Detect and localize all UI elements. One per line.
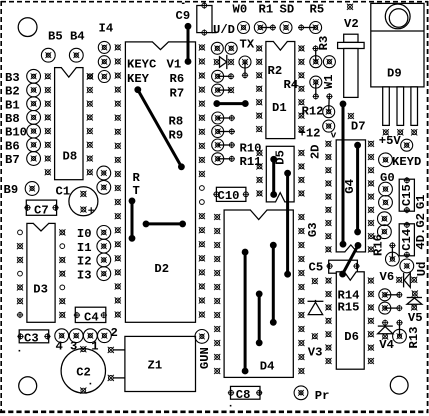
- pad B3: [27, 69, 41, 83]
- pad I0: [97, 226, 111, 240]
- pad B1: [27, 97, 41, 111]
- svg-text:B10: B10: [5, 126, 27, 140]
- svg-text:T: T: [133, 184, 140, 198]
- pads 4 3 1 2 row: [55, 329, 112, 343]
- D6 left pin pads: [325, 278, 331, 365]
- resistor R1 (pads+lead): [254, 22, 276, 34]
- IC D2: [125, 42, 195, 322]
- wire jumper long (x343): [340, 101, 346, 247]
- D9 leg pads: [383, 129, 418, 135]
- svg-text:R4: R4: [284, 78, 299, 92]
- wire jumper in D5: [271, 157, 277, 198]
- pads near G3/V3: [312, 278, 318, 339]
- wire jumper in D2 (diagonal): [135, 87, 184, 170]
- wire jumper in D2 (horizontal): [143, 221, 185, 227]
- svg-text:R5: R5: [310, 3, 325, 17]
- svg-text:KEY: KEY: [127, 72, 150, 86]
- capacitor C4: [74, 307, 107, 322]
- resistor R3 (pads+lead): [310, 45, 322, 67]
- svg-text:B7: B7: [5, 153, 20, 167]
- resistor W1 (pads+lead): [310, 76, 322, 100]
- resistor R11 (pads+lead): [212, 153, 235, 165]
- svg-text:B3: B3: [5, 71, 20, 85]
- svg-text:B5 B4: B5 B4: [48, 29, 85, 43]
- svg-text:D4: D4: [260, 360, 275, 374]
- D1 right pin pads: [298, 45, 304, 132]
- svg-text:KEYC: KEYC: [127, 57, 156, 71]
- pad right of R3: [323, 56, 335, 68]
- module Z1: [125, 336, 196, 391]
- svg-text:GUN: GUN: [198, 347, 212, 369]
- svg-text:C2: C2: [76, 365, 91, 379]
- svg-text:C15: C15: [400, 184, 414, 206]
- svg-text:C4: C4: [84, 311, 99, 325]
- svg-text:B6: B6: [5, 139, 20, 153]
- svg-text:TX: TX: [240, 37, 255, 51]
- capacitor C15: [399, 177, 414, 213]
- D4 right pin pads: [298, 214, 304, 374]
- D5 right pin pads: [298, 150, 304, 197]
- svg-text:D8: D8: [63, 149, 78, 163]
- pad B8: [27, 111, 41, 125]
- diode V4: [378, 326, 393, 334]
- svg-text:B1: B1: [5, 98, 20, 112]
- svg-text:B9: B9: [4, 183, 19, 197]
- svg-text:C9: C9: [176, 9, 191, 23]
- capacitor C1: [69, 187, 98, 216]
- svg-text:R12: R12: [302, 105, 324, 119]
- svg-text:Z1: Z1: [148, 358, 163, 372]
- pad +12: [323, 120, 335, 132]
- svg-text:D1: D1: [272, 101, 287, 115]
- diode V5: [407, 298, 422, 305]
- svg-text:R10: R10: [240, 141, 262, 155]
- pad near top edge right: [347, 4, 353, 10]
- IC G4: [336, 140, 365, 252]
- svg-text:I0: I0: [77, 227, 92, 241]
- horizontal resistor (pads+lead): [212, 126, 235, 138]
- capacitor C14: [399, 222, 414, 258]
- D5 left pin pads: [256, 150, 262, 197]
- svg-text:4D.G2: 4D.G2: [414, 213, 428, 250]
- wire jumper (left of D1): [214, 101, 248, 107]
- svg-text:U/D: U/D: [213, 23, 235, 37]
- trimmer V2: [338, 34, 365, 97]
- resistor R13 (pads+lead): [393, 320, 407, 344]
- diode V3: [308, 300, 324, 315]
- svg-text:V5: V5: [408, 311, 423, 325]
- svg-text:G1: G1: [414, 194, 428, 209]
- svg-text:V2: V2: [344, 17, 359, 31]
- resistor R5 (pads+lead): [298, 22, 322, 34]
- G4 right pin pads: [368, 141, 374, 253]
- Z1 stub bottom: [108, 375, 125, 381]
- svg-text:Pr: Pr: [315, 389, 330, 403]
- svg-text:C3: C3: [24, 332, 39, 346]
- svg-text:R8: R8: [169, 114, 184, 128]
- pad B6: [27, 138, 41, 152]
- horizontal resistor (pads+lead): [212, 112, 235, 124]
- D3 right pin pads: [59, 229, 65, 318]
- D1 left pin pads: [256, 45, 262, 132]
- D8 left pin pads: [45, 73, 51, 175]
- horizontal resistor row3: [212, 70, 235, 82]
- dot below C3: [19, 350, 21, 352]
- svg-text:C10: C10: [218, 189, 240, 203]
- svg-text:V3: V3: [308, 345, 323, 359]
- pads R16: [378, 212, 392, 239]
- D2 right pin pads: [199, 44, 205, 317]
- svg-text:I2: I2: [77, 255, 92, 269]
- pad I2: [97, 253, 111, 267]
- pad left of I4 bottom row: [87, 73, 93, 79]
- diode V6: [396, 273, 417, 288]
- svg-text:2: 2: [111, 326, 118, 340]
- svg-text:R15: R15: [338, 301, 360, 315]
- pad +5V: [401, 139, 413, 151]
- svg-text:R9: R9: [169, 128, 184, 142]
- capacitor C5: [326, 260, 359, 273]
- horizontal resistor row295: [379, 289, 403, 301]
- svg-text:R2: R2: [268, 64, 283, 78]
- svg-text:D3: D3: [33, 283, 48, 297]
- svg-text:SD: SD: [280, 3, 295, 17]
- Z1 stub top: [108, 347, 125, 353]
- IC D8: [55, 68, 83, 180]
- diode V (top-left): [214, 55, 234, 69]
- capacitor C7: [24, 200, 58, 215]
- wire jumper D5 to D4: [285, 170, 291, 277]
- IC D1: [266, 42, 295, 139]
- IC D5: [266, 146, 294, 202]
- wire jumper diagonal to C5: [340, 243, 361, 277]
- svg-text:R6: R6: [170, 72, 185, 86]
- mounting hole top-left: [18, 18, 37, 37]
- pads row TX: [211, 42, 237, 54]
- svg-text:I1: I1: [77, 241, 92, 255]
- pad I3: [97, 267, 111, 281]
- pad B10: [27, 124, 41, 138]
- svg-text:C8: C8: [236, 388, 251, 402]
- svg-text:C5: C5: [309, 260, 324, 274]
- pad GUN: [195, 330, 209, 344]
- horizontal resistor row308: [379, 302, 403, 314]
- pad B2: [27, 83, 41, 97]
- svg-text:W1: W1: [322, 74, 336, 89]
- IC D4: [224, 210, 293, 377]
- svg-text:D7: D7: [351, 119, 366, 133]
- svg-text:C1: C1: [56, 184, 71, 198]
- svg-text:D9: D9: [387, 67, 402, 81]
- mounting hole bottom-right: [390, 376, 408, 394]
- svg-text:D2: D2: [154, 262, 169, 276]
- IC D6: [336, 272, 364, 369]
- capacitor C3: [17, 330, 50, 343]
- capacitor C9: [197, 2, 217, 36]
- svg-text:D6: D6: [344, 330, 359, 344]
- svg-text:R3: R3: [317, 36, 331, 51]
- svg-text:+5V: +5V: [379, 134, 402, 148]
- svg-text:R11: R11: [240, 155, 262, 169]
- pad below V5: [411, 304, 417, 310]
- wire jumper in D4 (x245): [242, 249, 248, 374]
- resistor R10 (pads+lead): [212, 139, 235, 151]
- wire jumper below C9: [185, 24, 191, 65]
- svg-text:W0: W0: [233, 3, 248, 17]
- pad B7: [27, 152, 41, 166]
- svg-text:I4: I4: [99, 21, 114, 35]
- pad I1: [97, 239, 111, 253]
- resistor below W1 (pads+lead): [323, 93, 335, 117]
- svg-text:2D: 2D: [309, 144, 323, 159]
- capacitor C8: [228, 386, 263, 399]
- wire jumper in D4 (x273): [271, 242, 277, 325]
- pads G0: [379, 182, 393, 209]
- D8 right pin pads: [87, 73, 93, 175]
- capacitor C10: [213, 187, 249, 201]
- pad below V4: [382, 333, 388, 339]
- svg-text:R13: R13: [407, 327, 421, 349]
- svg-text:4: 4: [56, 340, 63, 354]
- svg-text:KEYD: KEYD: [392, 155, 421, 169]
- svg-text:C14: C14: [400, 229, 414, 251]
- D4 left pin pads: [214, 214, 220, 374]
- svg-text:I3: I3: [77, 268, 92, 282]
- pad KEYD: [379, 153, 393, 167]
- mounting hole bottom-left: [19, 377, 37, 395]
- pads right of C1: [97, 166, 111, 194]
- pad below C14: [400, 259, 414, 273]
- svg-text:C7: C7: [34, 203, 49, 217]
- svg-text:R1: R1: [259, 3, 274, 17]
- pad D7: [348, 113, 354, 119]
- IC D3: [27, 223, 55, 322]
- svg-text:R: R: [133, 171, 141, 185]
- D6 right pin pads: [368, 278, 374, 365]
- svg-text:B8: B8: [5, 112, 20, 126]
- pad W0: [238, 22, 250, 34]
- wire jumper in G4: [355, 142, 361, 234]
- svg-text:+12: +12: [299, 126, 321, 140]
- D2 left pin pads: [115, 44, 121, 317]
- pad above V5: [412, 291, 418, 297]
- voltage regulator D9: [371, 3, 424, 125]
- dot in C2: [90, 383, 92, 385]
- svg-text:V4: V4: [379, 338, 394, 352]
- G4 left pin pads: [325, 141, 331, 253]
- pad SD: [280, 22, 292, 34]
- svg-text:v: v: [331, 129, 337, 140]
- vertical resistor right of R16: [386, 242, 400, 266]
- svg-text:G3: G3: [306, 222, 320, 237]
- svg-text:V6: V6: [380, 270, 395, 284]
- D3 left pin pads: [17, 230, 23, 318]
- svg-text:R7: R7: [170, 86, 185, 100]
- horizontal resistor row4: [212, 84, 234, 96]
- svg-text:V1: V1: [167, 57, 182, 71]
- svg-text:B2: B2: [5, 85, 20, 99]
- polarity dot above C9: [182, 3, 185, 4]
- svg-text:Ud: Ud: [415, 262, 429, 277]
- I4 pads: [98, 41, 110, 82]
- capacitor C2: [61, 346, 105, 394]
- pad B4: [69, 48, 83, 62]
- svg-text:G4: G4: [343, 179, 357, 194]
- svg-text:R16: R16: [372, 234, 386, 256]
- wire jumper in D4 (x259): [256, 291, 262, 346]
- pad B9: [25, 182, 39, 196]
- wire jumper in D2 (vertical R/T): [129, 198, 135, 241]
- pad above V4: [382, 320, 388, 326]
- dot below C8: [230, 405, 232, 407]
- pad B5: [41, 48, 55, 62]
- vertical resistor (pads+lead): [239, 56, 251, 79]
- pad Pr: [294, 386, 308, 400]
